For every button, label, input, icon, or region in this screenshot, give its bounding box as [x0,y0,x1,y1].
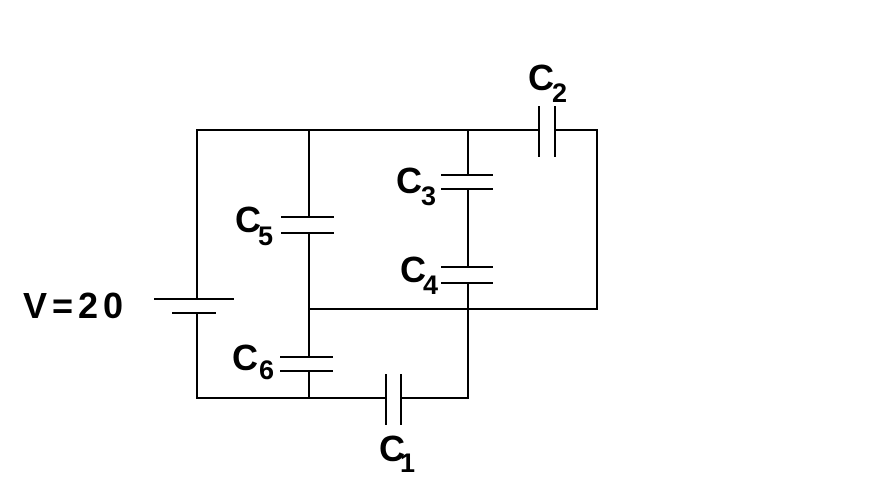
wire: branch from middle wire down to bottom wire [467,309,469,398]
svg-text:2: 2 [552,78,567,108]
wire: bottom left segment (left corner to C1 left plate) [196,397,386,399]
label C1 [379,428,415,478]
svg-text:3: 3 [421,181,436,211]
label C4 [400,249,438,300]
capacitor C1 plates [386,374,401,425]
wire: C3-C4 link (C3 bottom plate to C4 top plate) [467,189,469,267]
wire: bottom right segment (C1 right plate to C3/C4 branch) [401,397,469,399]
wire: top right segment (C2 right plate to top-right corner) [555,129,597,131]
svg-text:C: C [396,160,422,201]
wire: right edge (top-right corner down to middle node wire) [596,129,598,309]
wire: top left segment (top-left corner to C2 left plate) [197,129,539,131]
wire: C5 branch lower (C5 bottom plate to middle node) [308,233,310,309]
capacitor C4 plates [441,267,493,283]
svg-text:4: 4 [423,270,438,300]
battery V short plate [172,312,216,314]
label C6 [232,337,274,385]
wire: C6 branch upper (middle node to C6 top plate) [308,309,310,357]
label C3 [396,160,436,211]
wire: C3 branch upper (top wire to C3 top plate) [467,130,469,175]
capacitor C5 plates [281,217,334,233]
wire: C6 branch lower (C6 bottom plate to bottom wire) [308,371,310,399]
svg-text:V=20: V=20 [23,285,128,326]
wire: left edge lower (battery short plate to bottom wire) [196,313,198,398]
svg-text:5: 5 [258,221,273,251]
wire: C5 branch upper (top wire to C5 top plate) [308,130,310,217]
svg-text:C: C [528,57,554,98]
capacitor C2 plates [539,106,555,157]
wire: left edge upper (top wire to battery long plate) [196,129,198,299]
capacitor C6 plates [280,357,333,371]
label C5 [235,199,273,251]
svg-text:C: C [232,337,258,378]
label C2 [528,57,567,108]
capacitor C3 plates [441,175,493,189]
battery V long plate [154,298,234,300]
wire: C4 branch lower (C4 bottom plate to middle wire) [467,283,469,309]
wire: middle horizontal node wire [309,308,598,310]
svg-text:1: 1 [400,448,415,478]
svg-text:6: 6 [259,355,274,385]
